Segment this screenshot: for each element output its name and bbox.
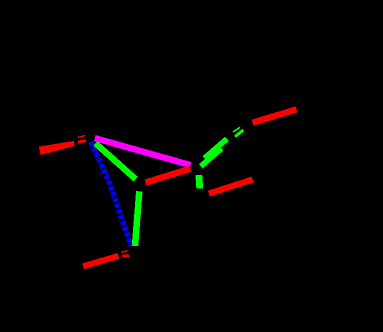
bond E-O2 red stick (top right): [253, 109, 297, 122]
bond O1-C1 partial double dash thin (upper): [78, 136, 86, 138]
bond B-E green stick lower half (upper right): [201, 148, 222, 166]
bond D-B red stick (center): [146, 169, 191, 183]
bond B-E green double dash thin (upper left): [233, 127, 240, 132]
bond B-E green end dash thick (lower right): [235, 130, 244, 137]
bond O4-C red main stick (bottom): [83, 256, 118, 266]
bond O4-C end dash thick (lower): [122, 255, 129, 258]
bond B-E green stick upper half (upper right): [205, 139, 228, 159]
bond A-B magenta stick: [95, 138, 191, 165]
hydrogen bond A-C blue dashed: [91, 142, 131, 247]
bond D-C green stick: [135, 191, 139, 246]
bond O1-C1 end dash thick (lower): [78, 141, 86, 142]
bond B-F green stub (below B): [199, 175, 200, 189]
bond O1-C1 red main stick (left): [39, 141, 75, 155]
bond F-O3 red stick (lower right): [209, 180, 253, 194]
bond O4-C partial double dash thin (upper): [121, 251, 128, 253]
bond A-D green stick: [96, 143, 136, 179]
